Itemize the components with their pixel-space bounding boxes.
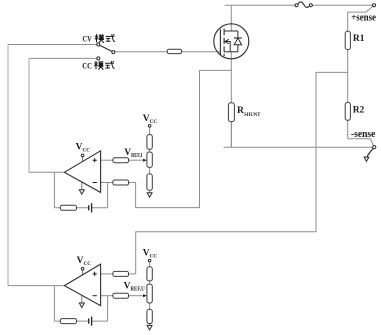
op-amp U1 + input mark: [93, 158, 97, 162]
switch S2 -sense pivot contact: [373, 146, 376, 149]
wire: top rail (drain to breaker): [225, 4, 296, 6]
wire: bottom return rail (R_SHUNT bottom to -sense switch): [224, 146, 373, 148]
transistor Q1 power MOSFET body circle: [214, 24, 249, 59]
node: +sense output terminal: [373, 4, 376, 7]
wire: VREF,I divider stems: [149, 127, 151, 193]
wire: U2 feedback run (resistor + cap to - input): [54, 296, 107, 321]
resistor VREF,I divider top: [147, 135, 152, 150]
wire: U2 - input to resistor: [101, 295, 113, 297]
wire: U1 ground stem: [81, 182, 83, 190]
wire: R2 to -sense bend: [347, 120, 349, 139]
wire: U2 ground stem: [81, 295, 83, 303]
wire: MOSFET source down to R_SHUNT: [230, 52, 232, 103]
wire: breaker to +sense terminal: [312, 4, 372, 6]
node: VREF,I wiper arrow head: [143, 159, 147, 162]
diode D1 anode lead: [237, 45, 239, 52]
svg-text:CC: CC: [82, 62, 92, 71]
svg-text:VCC: VCC: [76, 142, 91, 153]
resistor U1 - input series resistor: [113, 180, 129, 185]
breaker F1 S-curve element: [298, 2, 310, 8]
wire: U2 + resistor up to voltage sense line: [129, 273, 136, 275]
op-amp U2 + input mark: [93, 272, 97, 276]
transistor Q1 gate bar: [219, 29, 221, 55]
svg-text:R2: R2: [353, 106, 365, 116]
wire: right rail terminal to R1: [347, 12, 349, 31]
wire: U1 output to second rail: [29, 171, 64, 173]
wire: far-left rail (U2 output to CV switch): [7, 45, 9, 286]
wire: U2 Vcc stem: [82, 270, 84, 275]
wire: U1 - input to resistor: [101, 182, 113, 184]
resistor R_SHUNT: [228, 103, 234, 122]
op-amp U1 - input mark: [93, 182, 97, 184]
switch S1 CC throw contact: [97, 57, 100, 60]
wire: terminal diagonal to +sense rail: [348, 6, 373, 12]
resistor VREF,I divider bottom: [147, 174, 152, 190]
transistor Q1 drain stub: [224, 30, 238, 32]
resistor R2: [345, 102, 350, 120]
capacitor U2 feedback cap plate 1: [88, 319, 90, 324]
wire: R_SHUNT bottom to return rail: [230, 122, 232, 148]
ground: VREF,U divider ground arrow: [147, 325, 152, 330]
svg-text:CV: CV: [83, 35, 92, 44]
wire: source sense rail down left side of U1: [136, 70, 200, 207]
power: U2 Vcc terminal circle: [81, 267, 84, 270]
switch S1 lever: [100, 45, 112, 51]
wire: CC wire from second rail to CC switch throw: [29, 57, 97, 59]
wire: source sense branch horizontal: [200, 69, 232, 71]
potentiometer VREF,U divider middle: [147, 284, 152, 303]
op-amp U2 - input mark: [93, 295, 97, 297]
switch S2 arrow head: [364, 157, 369, 161]
label: 模式 glyphs after CV (hand drawn): [95, 34, 104, 43]
capacitor U2 feedback cap plate 2: [91, 317, 93, 326]
breaker F1 right contact: [309, 4, 312, 7]
op-amp U1 triangle (CC error amplifier): [64, 151, 100, 193]
transistor Q1 body arrow head: [225, 39, 229, 43]
wire: R1/R2 mid node sense branch: [136, 72, 348, 274]
resistor VREF,U divider bottom: [147, 309, 152, 323]
svg-text:+sense: +sense: [351, 13, 376, 24]
wire: -sense bend to output switch: [348, 139, 374, 146]
resistor U2 - input series resistor: [113, 293, 129, 298]
switch S1 common contact: [112, 51, 115, 54]
resistor U2 feedback resistor: [60, 319, 76, 324]
switch S1 CV throw contact: [97, 43, 100, 46]
wire: switch common to gate resistor: [115, 51, 167, 53]
wire: drain wire from top rail into MOSFET: [230, 5, 232, 31]
resistor R_gate (gate series resistor): [167, 49, 181, 53]
wire: U2 + input to resistor: [101, 273, 113, 275]
diode D1 cathode bar: [234, 37, 242, 39]
ground: U1 Vee arrow: [79, 190, 84, 195]
potentiometer VREF,I divider middle: [147, 152, 152, 167]
power: VREF,U divider Vcc terminal: [148, 259, 151, 262]
svg-text:-sense: -sense: [351, 129, 376, 140]
capacitor U1 feedback cap plate 1: [88, 205, 90, 210]
svg-text:RSHUNT: RSHUNT: [237, 105, 261, 118]
diode D1 triangle: [234, 38, 242, 44]
wire: U1 - resistor to source sense rail: [129, 183, 136, 208]
wire: VREF,U divider stems: [149, 262, 151, 326]
svg-text:VCC: VCC: [143, 249, 158, 260]
transistor Q1 channel bar (segmented): [223, 29, 225, 56]
wire: gate resistor to MOSFET gate: [182, 51, 221, 53]
svg-text:VREF,U: VREF,U: [124, 282, 146, 293]
wire: U2 feedback vertical from output: [53, 286, 55, 322]
wire: U1 + resistor to VREF,I pot arrow: [129, 159, 144, 161]
transistor Q1 source stub: [224, 51, 238, 53]
wire: U1 + input to resistor: [101, 159, 113, 161]
wire: U2 output to far-left rail: [8, 285, 64, 287]
power: VREF,I divider Vcc terminal: [148, 125, 151, 128]
resistor U1 feedback resistor: [60, 205, 76, 210]
wire: U1 feedback vertical from output: [53, 172, 55, 208]
power: U1 Vcc terminal circle: [81, 154, 84, 157]
wire: U2 - resistor to VREF,U pot arrow: [129, 295, 144, 297]
label: 模式 glyphs after CC (hand drawn): [94, 61, 103, 70]
op-amp U2 triangle (CV error amplifier): [64, 264, 100, 306]
transistor Q1 body arrow stub: [225, 42, 230, 52]
ground: U2 Vee arrow: [79, 303, 84, 308]
breaker F1 left contact: [295, 4, 298, 7]
svg-text:VCC: VCC: [77, 256, 92, 267]
wire: U1 feedback run (resistor + cap to - input): [54, 183, 107, 208]
node: VREF,U wiper arrow head: [143, 294, 147, 297]
svg-text:VCC: VCC: [143, 114, 158, 125]
capacitor U1 feedback cap plate 2: [91, 203, 93, 212]
wire: second-left rail (U1 output to CC switch): [28, 58, 30, 172]
svg-text:R1: R1: [353, 34, 365, 44]
diode D1 body diode cathode lead: [237, 31, 239, 38]
wire: CV wire from left rail to CV switch throw: [8, 44, 97, 46]
wire: U1 Vcc stem: [82, 157, 84, 162]
resistor VREF,U divider top: [147, 267, 152, 281]
switch S2 lever: [367, 149, 373, 157]
ground: VREF,I divider ground arrow: [147, 193, 152, 198]
resistor U1 + input series resistor: [113, 158, 129, 163]
resistor R1: [345, 31, 350, 49]
resistor U2 + input series resistor: [113, 271, 129, 276]
wire: R1 to R2 segment: [347, 50, 349, 103]
svg-text:VREF,I: VREF,I: [124, 148, 143, 159]
